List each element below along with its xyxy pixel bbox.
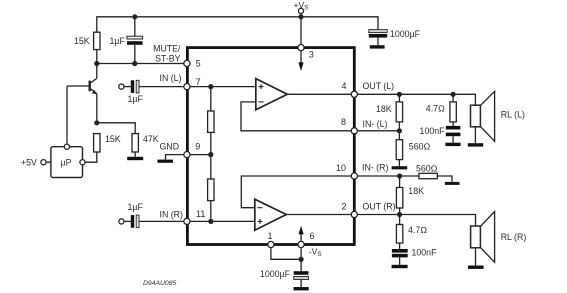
node column/pin9 [208, 152, 213, 157]
pin 6 [298, 241, 304, 247]
IC block U1 [187, 48, 354, 245]
capacitor 1uF input L [124, 80, 183, 104]
resistor 15K (top left) [74, 32, 100, 49]
svg-text:µP: µP [61, 157, 72, 167]
transistor Q1 mute [67, 64, 97, 123]
node OUT(L)/4.7 [451, 92, 456, 97]
pin 4 [351, 91, 357, 97]
svg-text:15K: 15K [105, 134, 121, 144]
node IN (R) terminal [119, 219, 124, 224]
ground (1000uF +VS) [370, 45, 385, 48]
svg-text:1µF: 1µF [128, 202, 144, 212]
svg-text:IN (R): IN (R) [160, 209, 184, 219]
svg-text:D94AU085: D94AU085 [143, 280, 176, 287]
wire IN-(L) line [358, 130, 400, 132]
svg-text:18K: 18K [408, 186, 424, 196]
wire pin6 drop [300, 248, 302, 271]
node emitter junction [94, 120, 99, 125]
svg-text:1000µF: 1000µF [260, 269, 291, 279]
wire inner bias column [210, 87, 212, 222]
node column/pin11 [208, 219, 213, 224]
node junction rail/1uF [132, 14, 137, 19]
svg-text:8: 8 [341, 117, 346, 127]
svg-text:1000µF: 1000µF [390, 29, 421, 39]
svg-text:1: 1 [268, 231, 273, 241]
svg-text:100nF: 100nF [420, 126, 446, 136]
resistor 560R (R) horizontal [416, 164, 452, 182]
wire IN-(R) line [358, 175, 419, 177]
capacitor 100nF (R) [392, 247, 437, 264]
svg-text:IN (L): IN (L) [160, 73, 182, 83]
wire top supply rail [97, 17, 378, 64]
resistor inner bias lower [208, 179, 214, 201]
node OUT(L)/18K [397, 92, 402, 97]
svg-text:1µF: 1µF [110, 36, 126, 46]
node uP right terminal [80, 160, 85, 165]
svg-text:RL (R): RL (R) [501, 232, 527, 242]
wire +5V stub [46, 161, 51, 163]
svg-text:9: 9 [195, 141, 200, 151]
ground (560R R) [445, 182, 460, 185]
capacitor 1uF input R [124, 202, 183, 228]
wire base to uP [66, 86, 68, 144]
op-amp U1A [256, 79, 287, 110]
wire pin9 stub [190, 154, 211, 156]
pin 10 [351, 173, 357, 179]
wire OUT(R) to speaker [358, 215, 476, 227]
arrow pin3 current [298, 51, 303, 71]
wire pin7 to op-amp + [190, 86, 255, 88]
node +VS terminal [298, 8, 303, 13]
svg-text:2: 2 [342, 202, 347, 212]
resistor 4.7R (R) [396, 215, 427, 250]
svg-text:4: 4 [342, 81, 347, 91]
ground (560R L) [392, 166, 408, 169]
node +5V terminal [41, 160, 46, 165]
ground (100nF L) [445, 143, 460, 146]
node junction 15K/collector/mute [94, 61, 99, 66]
svg-text:1µF: 1µF [128, 94, 144, 104]
svg-text:ST-BY: ST-BY [155, 53, 181, 63]
ground (GND pin) [158, 141, 184, 163]
wire pin10 to op-amp B minus [241, 176, 351, 208]
node junction pin1/pin6 [299, 257, 304, 262]
svg-text:11: 11 [196, 209, 205, 219]
capacitor 1000uF (+VS) [369, 29, 421, 45]
svg-text:IN- (L): IN- (L) [363, 119, 388, 129]
wire OUT(L) to speaker [358, 94, 476, 105]
pin 2 [351, 211, 357, 217]
svg-text:OUT (R): OUT (R) [363, 201, 396, 211]
resistor 18K (L) [376, 94, 403, 131]
svg-text:10: 10 [336, 163, 346, 173]
svg-text:OUT (L): OUT (L) [363, 81, 395, 91]
pin 3 [298, 45, 304, 51]
pin 8 [351, 128, 357, 134]
capacitor 1000uF (-VS) [260, 269, 309, 287]
svg-text:3: 3 [309, 50, 314, 60]
pin number labels [195, 50, 346, 242]
svg-text:47K: 47K [143, 134, 159, 144]
ground (100nF R) [392, 265, 408, 268]
svg-text:IN- (R): IN- (R) [362, 162, 388, 172]
svg-text:15K: 15K [74, 36, 90, 46]
capacitor 100nF (L) [420, 126, 461, 143]
capacitor 1uF (top left, polarized) [110, 17, 143, 64]
speaker RL(L) [471, 91, 525, 143]
node IN-(L)/560 [397, 128, 402, 133]
node column/pin7 [208, 84, 213, 89]
wire mute line to pin 5 [97, 63, 184, 65]
wire pin11 to op-amp + [190, 220, 254, 222]
op-amp U1B [255, 199, 286, 230]
ground (47K) [127, 157, 143, 160]
resistor 18K (R) [396, 176, 424, 215]
uP box U2 [51, 147, 83, 178]
pin 5 [184, 60, 190, 66]
svg-text:6: 6 [310, 231, 315, 241]
svg-text:MUTE/: MUTE/ [153, 44, 181, 54]
svg-text:560Ω: 560Ω [416, 164, 438, 174]
resistor inner bias upper [208, 111, 214, 132]
node IN (L) terminal [119, 84, 124, 89]
ground (speaker L) [468, 143, 483, 146]
svg-text:7: 7 [196, 77, 201, 87]
node IN-(R) junction [397, 173, 402, 178]
svg-text:100nF: 100nF [412, 247, 438, 257]
pin 1 [268, 241, 274, 247]
node uP top terminal [64, 144, 69, 149]
svg-text:4.7Ω: 4.7Ω [408, 225, 427, 235]
resistor 4.7R (L) [426, 94, 457, 126]
svg-text:18K: 18K [376, 104, 392, 114]
wire op-amp B output to pin 2 [287, 214, 352, 216]
node junction rail/pin3 [298, 14, 303, 19]
svg-text:5: 5 [196, 59, 201, 69]
resistor 47K [132, 134, 159, 152]
pin 7 [184, 84, 190, 90]
arrow pin6 current [299, 226, 304, 243]
svg-text:+5V: +5V [21, 157, 37, 167]
resistor 15K (bias) [94, 134, 121, 152]
label MUTE/ST-BY [153, 44, 181, 64]
ground (1000uF -VS) [294, 287, 309, 290]
svg-text:4.7Ω: 4.7Ω [426, 104, 445, 114]
pin 11 [184, 218, 190, 224]
svg-text:RL (L): RL (L) [501, 110, 525, 120]
node junction 1uF/mute [132, 61, 137, 66]
svg-text:560Ω: 560Ω [409, 142, 431, 152]
ground (speaker R) [468, 266, 484, 269]
wire pin1 drop [271, 248, 299, 259]
wire op-amp A feedback to pin 8 [241, 102, 351, 131]
wire op-amp A output to pin 4 [288, 93, 352, 95]
resistor 560R (L) [396, 131, 430, 166]
wire +VS to pin 3 [300, 14, 302, 48]
speaker RL(R) [471, 212, 527, 266]
wire 15K to uP output [85, 152, 97, 162]
wire 47K to ground [134, 152, 136, 157]
pin 9 [184, 152, 190, 158]
svg-text:GND: GND [160, 141, 180, 151]
wire emitter to 47K [97, 123, 135, 134]
node OUT(R)/4.7 [397, 212, 402, 217]
